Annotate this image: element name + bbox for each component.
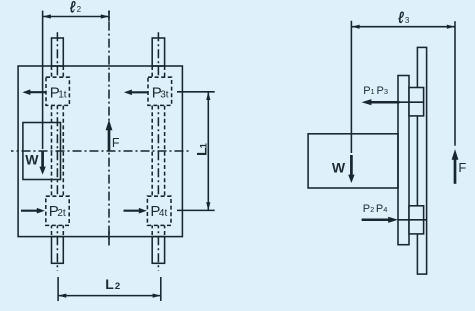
lower block (side view) bbox=[409, 206, 424, 234]
arrow P1t (points left) bbox=[30, 91, 47, 93]
plate outline (front view) bbox=[18, 66, 182, 237]
force F arrow (up, side view) bbox=[454, 159, 457, 184]
bold load arrows, side view bbox=[348, 99, 458, 223]
dimension L2 extension lines bbox=[57, 277, 59, 301]
rail 2 solid end below plate bbox=[152, 237, 164, 264]
vertical centerline of plate bbox=[108, 11, 110, 246]
l3 left arrowhead bbox=[351, 25, 359, 29]
block P3t (hidden, dashed) bbox=[148, 77, 172, 105]
svg-text:W: W bbox=[25, 151, 39, 167]
l3 arrowheads bbox=[351, 25, 455, 29]
rail 1 solid end below plate bbox=[52, 237, 64, 264]
dimension l3 line bbox=[351, 26, 455, 28]
arrow P1P3 (points left) bbox=[371, 101, 400, 104]
svg-text:W: W bbox=[332, 160, 346, 176]
upper block (side view) bbox=[409, 88, 424, 116]
svg-text:ℓ: ℓ bbox=[70, 0, 76, 16]
svg-text:F: F bbox=[112, 136, 120, 150]
arrow P2P4 (points right) bbox=[362, 219, 389, 222]
rail 2 hidden edges (dashed) bbox=[151, 66, 153, 237]
arrow P3t (points left) bbox=[131, 91, 149, 93]
L2 left arrowhead bbox=[58, 294, 66, 298]
dimension L1 extension lines bbox=[177, 91, 215, 93]
extension line right (F line) bbox=[454, 21, 456, 146]
block P4t (hidden, dashed) bbox=[147, 196, 171, 225]
svg-text:P1P3: P1P3 bbox=[363, 85, 388, 97]
thin part of P2P4 line through block bbox=[398, 219, 426, 221]
rail 2 (right) solid end above plate bbox=[152, 38, 164, 66]
svg-text:P2P4: P2P4 bbox=[363, 203, 388, 215]
dimension l2: line with arrows bbox=[43, 16, 109, 18]
dimension L2 line bbox=[58, 295, 161, 297]
centerline solid joint at plate bottom bbox=[108, 232, 110, 244]
W application box (side view) bbox=[308, 134, 398, 188]
svg-text:3: 3 bbox=[405, 16, 410, 25]
l2 right arrowhead bbox=[101, 14, 109, 18]
dimension arrowheads bbox=[43, 14, 211, 297]
rail 1 centerline bbox=[56, 32, 58, 271]
dimension L1 line bbox=[207, 92, 209, 211]
W application box (front view) bbox=[23, 123, 61, 180]
arrow P2t (points right) bbox=[21, 210, 38, 212]
extension line from dimension l3 to W point bbox=[350, 21, 352, 153]
horizontal centerline of plate bbox=[11, 150, 190, 152]
force F arrow (up, at plate center) bbox=[108, 130, 111, 152]
rail 1 hidden edges (dashed) bbox=[51, 66, 53, 237]
svg-text:F: F bbox=[458, 160, 466, 175]
block P1t (hidden, dashed) bbox=[46, 77, 69, 105]
svg-text:ℓ: ℓ bbox=[398, 9, 404, 27]
arrow P4t (points right) bbox=[124, 210, 141, 212]
block P2t (hidden, dashed) bbox=[46, 196, 69, 225]
thin part of P1P3 line through block bbox=[399, 101, 424, 103]
rail 2 centerline bbox=[157, 32, 159, 271]
L1 bottom arrowhead bbox=[206, 202, 210, 210]
L2 right arrowhead bbox=[153, 294, 161, 298]
table plate (side view, edge-on) bbox=[398, 76, 409, 245]
rail 1 (left) solid end above plate bbox=[52, 38, 64, 66]
rail (side view) bbox=[417, 47, 426, 274]
svg-text:2: 2 bbox=[77, 5, 82, 14]
centerline solid joint at dimension bbox=[108, 11, 110, 22]
load W arrow (down, side view) bbox=[350, 155, 353, 175]
bold load arrows, front view bbox=[21, 89, 149, 213]
l2 left arrowhead bbox=[43, 14, 51, 18]
extension line from dimension l2 to W point bbox=[42, 11, 44, 149]
l3 right arrowhead bbox=[447, 25, 455, 29]
load W arrow (down, at load point) bbox=[41, 151, 44, 168]
L1 top arrowhead bbox=[206, 92, 210, 100]
